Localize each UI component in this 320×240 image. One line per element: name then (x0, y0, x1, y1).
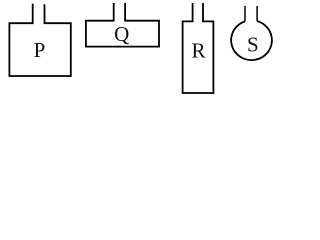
flask S right neck line (256, 6, 258, 21)
svg-text:R: R (191, 38, 205, 62)
vessel P outline (9, 4, 70, 76)
flask S left neck line (244, 6, 246, 21)
vessel R outline (183, 3, 214, 93)
flask S body arc (231, 21, 272, 60)
vessel Q outline (86, 3, 159, 47)
svg-text:S: S (247, 33, 259, 57)
svg-text:P: P (34, 38, 46, 62)
svg-text:Q: Q (114, 22, 129, 46)
